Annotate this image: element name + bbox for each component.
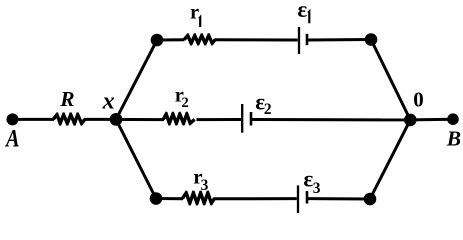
wire node 0 to B [410,118,453,122]
node bottom-left [150,192,163,205]
svg-text:3: 3 [313,180,321,197]
svg-text:R: R [59,87,74,111]
svg-text:B: B [446,127,461,151]
svg-text:ε: ε [297,0,307,22]
node top-left [151,34,164,47]
svg-text:x: x [102,89,115,115]
wire battery e2 to node 0 [252,118,410,121]
wire r3 to battery e3 [214,197,297,200]
svg-text:3: 3 [201,177,209,194]
node 0 [404,114,417,127]
node x [110,113,123,126]
wire bottom-right node to node 0 (diagonal) [370,120,410,199]
wire battery e1 to top-right node [308,38,371,42]
wire A to R [13,118,55,121]
node top-right [365,33,378,46]
wire top-left node to r1 [157,38,185,41]
resistor r1 [183,33,217,45]
wire top-right node to node 0 (diagonal) [371,40,410,120]
resistor r3 [181,191,216,206]
node bottom-right [364,193,377,206]
wire x to r2 [116,118,164,121]
battery E2 short plate [250,112,253,126]
resistor r2 [162,112,196,126]
wire x to bottom-left node (diagonal) [116,119,156,198]
battery E3 short plate [306,191,309,204]
svg-text:A: A [4,125,19,152]
node B [447,113,459,125]
wire r1 to battery e1 [215,38,298,41]
svg-text:2: 2 [264,101,272,118]
wire x to top-left node (diagonal) [116,40,157,119]
battery E3 long plate [297,185,299,213]
label r1 subscript 1 [199,17,200,27]
wire r2 to battery e2 [197,118,242,121]
svg-text:2: 2 [182,95,189,111]
battery E1 short plate [306,34,309,45]
resistor R [52,112,86,125]
svg-text:0: 0 [413,88,424,112]
node A [7,113,19,125]
battery E2 long plate [241,104,243,133]
wire R to x [84,118,116,121]
wire battery e3 to bottom-right node [308,197,370,200]
svg-text:r: r [190,2,199,24]
label epsilon1 subscript 1 [308,11,309,23]
battery E1 long plate [298,27,300,54]
wire bottom-left node to r3 [156,197,183,200]
